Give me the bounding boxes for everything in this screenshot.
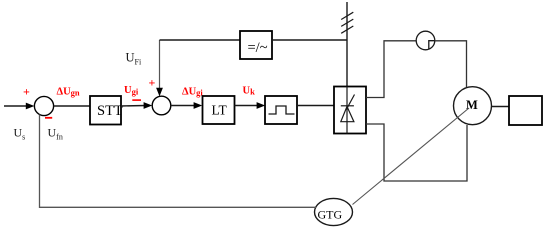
supply line (three phase) xyxy=(346,2,348,87)
svg-text:Ugi: Ugi xyxy=(124,85,139,96)
three-phase hatch marks xyxy=(341,12,353,33)
summing junction S2 xyxy=(152,96,171,115)
wire reactor to motor top xyxy=(435,41,467,87)
svg-text:STT: STT xyxy=(97,103,123,119)
wire feedback: S1 down and along bottom to GTG xyxy=(40,115,317,208)
svg-text:ΔUgn: ΔUgn xyxy=(57,87,80,98)
thyristor symbol xyxy=(341,87,355,134)
svg-text:UFi: UFi xyxy=(126,51,142,67)
svg-text:+: + xyxy=(149,76,156,90)
svg-text:GTG: GTG xyxy=(318,208,343,222)
load box xyxy=(509,96,542,125)
wire S2 to LT with arrowhead xyxy=(171,102,202,109)
wire LT to pulse block with arrowhead xyxy=(235,102,266,109)
summing junction S1 xyxy=(34,96,53,115)
wire STT to S2 with arrowhead xyxy=(121,102,152,109)
block pulse generator xyxy=(265,96,297,124)
block STT xyxy=(90,96,123,125)
tachogenerator GTG xyxy=(315,198,353,225)
block =/~ converter xyxy=(240,31,272,59)
wire thyristor output top to reactor xyxy=(366,41,416,98)
svg-text:Uk: Uk xyxy=(243,86,256,97)
svg-text:M: M xyxy=(466,98,478,112)
block thyristor converter xyxy=(334,87,366,134)
block LT xyxy=(203,96,235,124)
wire top feedback horizontal to =/~ block xyxy=(160,39,241,41)
wire pulse block to thyristor gate xyxy=(297,105,334,107)
svg-text:ΔUgi: ΔUgi xyxy=(182,87,203,98)
svg-text:Us: Us xyxy=(14,126,26,142)
wire motor to load box xyxy=(492,106,510,108)
label - (minus at S1) xyxy=(45,117,52,119)
wire =/~ block to supply line xyxy=(272,39,347,41)
label - (minus at S2 left) xyxy=(132,99,141,101)
smoothing reactor xyxy=(416,31,435,50)
wire vertical into S2 from top with arrowhead xyxy=(156,40,163,96)
wire thyristor output bottom to motor bottom xyxy=(366,124,467,181)
svg-text:Ufn: Ufn xyxy=(48,126,63,142)
shaft line GTG to motor xyxy=(353,108,470,205)
svg-text:=/~: =/~ xyxy=(248,40,268,56)
wire S1 to STT xyxy=(54,105,90,107)
svg-text:+: + xyxy=(23,85,30,99)
svg-text:LT: LT xyxy=(212,103,228,118)
motor M xyxy=(454,87,492,125)
wire input arrow into summing junction S1 xyxy=(4,103,34,110)
